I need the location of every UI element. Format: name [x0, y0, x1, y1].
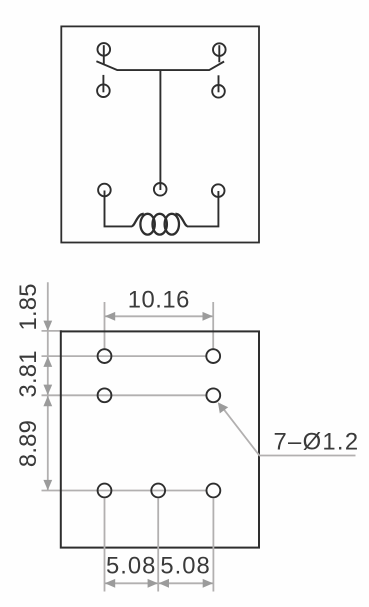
relay case outline (top schematic)	[61, 26, 259, 242]
hole row3 middle	[151, 484, 165, 498]
extension line top edge	[42, 330, 63, 332]
hole row3 left	[98, 484, 112, 498]
pin stub top-right	[218, 45, 220, 62]
dimension vertical line (left stack)	[47, 282, 49, 490]
5.08 arrow far right	[203, 579, 213, 588]
terminal circle bottom-left (coil pin)	[98, 184, 111, 197]
hole row1 left	[98, 349, 112, 363]
svg-text:1.85: 1.85	[15, 283, 42, 330]
arrow down at top edge (1.85)	[43, 321, 52, 331]
5.08 extension line right	[212, 498, 214, 591]
coil wire right	[187, 191, 218, 226]
coil L1 loop 1	[140, 214, 154, 235]
10.16 arrow left	[105, 312, 115, 321]
coil L1 loop 3	[165, 214, 179, 235]
extension line row 3	[42, 490, 207, 492]
coil wire left	[105, 191, 133, 227]
10.16 arrow right	[203, 312, 213, 321]
coil exit curve	[175, 214, 187, 226]
10.16 extension line left	[104, 302, 106, 349]
svg-text:5.08: 5.08	[160, 552, 210, 579]
5.08 extension line left	[104, 498, 106, 591]
extension line row 2	[42, 394, 207, 396]
extension line row 1	[42, 355, 207, 357]
5.08 dimension line	[105, 582, 214, 584]
terminal circle bottom-middle (common pin)	[154, 183, 167, 196]
terminal circle top-left (NO pin)	[98, 43, 111, 56]
5.08 arrow far left	[105, 579, 115, 588]
svg-text:10.16: 10.16	[128, 286, 190, 313]
common wire (center)	[159, 70, 161, 190]
hole row1 right	[206, 349, 220, 363]
footprint square outline	[61, 331, 259, 547]
10.16 extension line right	[212, 302, 214, 349]
svg-text:8.89: 8.89	[15, 420, 42, 467]
switch arm and common bar	[96, 61, 224, 70]
pin stub mid-left	[102, 75, 104, 92]
svg-text:5.08: 5.08	[106, 552, 156, 579]
pin stub mid-right	[218, 75, 220, 92]
arrow up at row2 (8.89)	[43, 396, 52, 406]
terminal circle bottom-right (coil pin)	[212, 184, 225, 197]
terminal circle mid-left (NC pin)	[97, 84, 110, 97]
10.16 dimension line	[105, 315, 214, 317]
coil entry curve	[132, 214, 144, 226]
leader arrowhead	[218, 402, 228, 413]
pin stub top-left	[103, 45, 105, 64]
arrow up at row1 (1.85 / 3.81)	[43, 357, 52, 367]
coil L1 loop 2	[153, 214, 167, 235]
hole row2 right	[206, 388, 220, 402]
leader line to 7-dia1.2	[220, 404, 356, 456]
hole row3 right	[207, 484, 221, 498]
5.08 arrows middle pair	[148, 579, 158, 588]
hole row2 left	[98, 388, 112, 402]
svg-text:3.81: 3.81	[15, 350, 42, 397]
terminal circle top-right (NO pin)	[213, 43, 226, 56]
terminal circle mid-right (NC pin)	[212, 85, 225, 98]
svg-text:7–Ø1.2: 7–Ø1.2	[274, 429, 360, 456]
5.08 extension line middle	[157, 498, 159, 591]
arrow down at row3 (8.89)	[43, 480, 52, 490]
arrow down at row2 (3.81)	[43, 385, 52, 395]
